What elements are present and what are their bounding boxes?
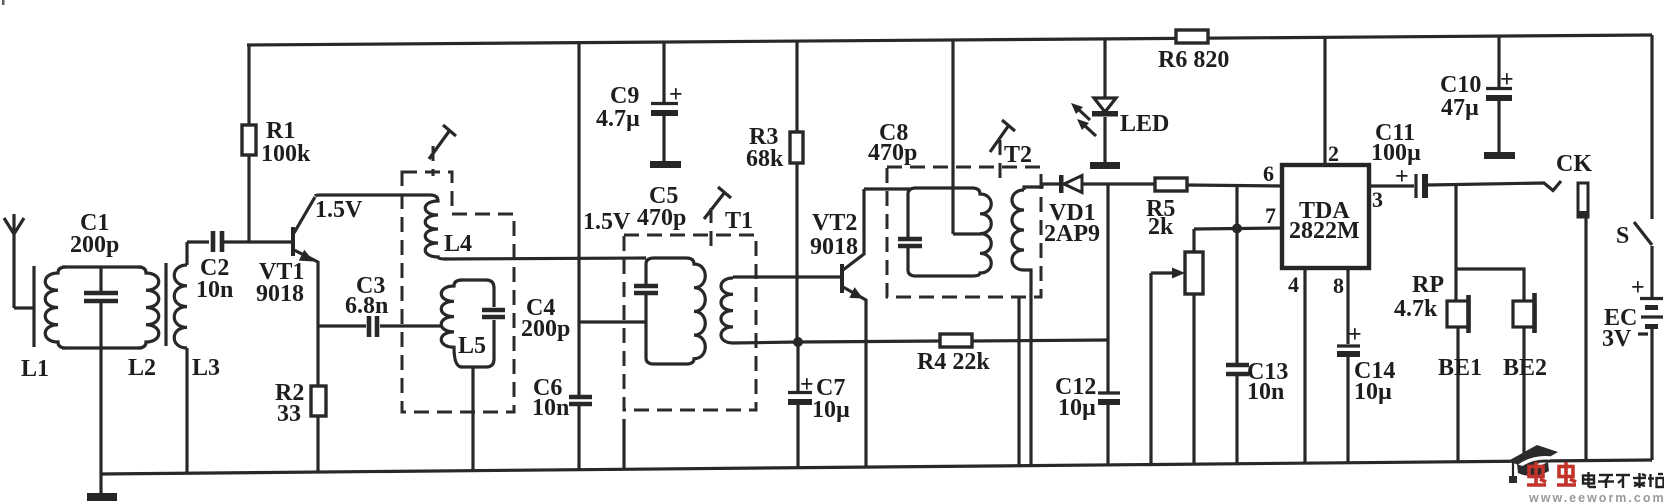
transistor VT2 <box>840 254 866 300</box>
svg-text:BE1: BE1 <box>1438 355 1482 381</box>
svg-text:RP: RP <box>1412 272 1444 298</box>
wire pin2 <box>1323 36 1326 165</box>
svg-text:R4 22k: R4 22k <box>917 349 990 375</box>
inductor T2 secondary <box>1012 183 1042 465</box>
wire 1.5V branch to T1 <box>579 320 646 323</box>
wire pin7 line <box>1194 228 1282 229</box>
node junction dot pin7 <box>1232 224 1242 234</box>
diode VD1 <box>1059 175 1082 193</box>
svg-text:1.5V: 1.5V <box>315 197 363 223</box>
resistor R5 <box>1155 178 1187 191</box>
capacitor C2 <box>213 231 222 252</box>
wire emitter line to R4 and C12 <box>798 341 940 342</box>
svg-text:10µ: 10µ <box>812 397 850 423</box>
svg-text:T2: T2 <box>1004 142 1032 168</box>
resistor R3 <box>790 41 803 342</box>
wire VT2 collector up <box>862 189 865 255</box>
svg-text:2AP9: 2AP9 <box>1044 221 1100 247</box>
svg-text:L1: L1 <box>21 356 49 382</box>
svg-text:LED: LED <box>1120 111 1169 137</box>
inductor T1 primary tank <box>646 258 705 364</box>
potentiometer RP body <box>1151 229 1203 464</box>
wire T1 secondary top to VT2 base <box>733 275 840 278</box>
svg-text:200p: 200p <box>521 316 570 342</box>
svg-text:+: + <box>1395 164 1409 190</box>
capacitor C12 electrolytic <box>1098 393 1120 405</box>
inductor L3 <box>174 242 187 473</box>
svg-text:10µ: 10µ <box>1354 379 1392 405</box>
wire tank center to ground rail <box>99 348 102 472</box>
op-amp U1 TDA2822M <box>1282 165 1369 268</box>
wire C12 vertical <box>1106 184 1109 392</box>
wire bottom ground rail <box>100 460 1652 474</box>
inductor T1 secondary <box>721 278 733 343</box>
inductor L1 <box>45 267 66 348</box>
svg-text:10n: 10n <box>1247 379 1284 405</box>
wire pin3 to C11 <box>1369 184 1414 187</box>
capacitor C9 electrolytic <box>650 42 681 168</box>
svg-text:6.8n: 6.8n <box>345 293 388 319</box>
wire T1 shield ground stub <box>622 419 625 470</box>
wire 1.5V feed vertical <box>577 44 580 395</box>
switch S <box>1634 35 1652 298</box>
svg-text:R6 820: R6 820 <box>1158 47 1229 73</box>
svg-text:10µ: 10µ <box>1058 395 1096 421</box>
inductor T2 primary tank <box>908 188 991 276</box>
shield box L4/L5 dashed <box>402 172 514 412</box>
wire tank top <box>62 265 142 268</box>
svg-text:470p: 470p <box>868 140 917 166</box>
shield box T2 dashed <box>887 167 1041 297</box>
svg-text:+: + <box>669 82 683 108</box>
capacitor C11 electrolytic <box>1416 174 1428 198</box>
svg-text:1.5V: 1.5V <box>583 209 631 235</box>
wire top supply rail <box>247 35 1652 45</box>
antenna <box>4 214 34 347</box>
capacitor C13 <box>1226 365 1249 374</box>
svg-text:47µ: 47µ <box>1441 95 1479 121</box>
svg-text:33: 33 <box>277 401 301 427</box>
inductor L4 <box>425 195 446 259</box>
wire T1 secondary bottom <box>733 342 798 343</box>
scan speck top left <box>2 0 5 5</box>
shield box T1 dashed <box>624 235 756 410</box>
capacitor C6 <box>569 397 592 470</box>
watermark red characters <box>1527 462 1576 485</box>
capacitor C10 electrolytic <box>1484 36 1515 159</box>
inductor L5 tank <box>441 280 494 367</box>
resistor R6 <box>1176 30 1208 43</box>
capacitor C5 <box>634 286 658 293</box>
wire T2 shield ground stub <box>1017 297 1020 465</box>
svg-text:6: 6 <box>1263 161 1274 186</box>
trimmer core arrow of L4/L5 <box>429 125 456 176</box>
capacitor C14 electrolytic <box>1337 346 1360 462</box>
svg-text:2k: 2k <box>1148 214 1174 240</box>
svg-text:L4: L4 <box>444 231 472 257</box>
wire emitter to R2 <box>316 261 319 386</box>
svg-text:+: + <box>1500 67 1514 93</box>
wire VD1 line <box>1042 182 1155 185</box>
svg-text:8: 8 <box>1333 273 1344 298</box>
capacitor C7 electrolytic <box>788 342 812 468</box>
svg-text:VT2: VT2 <box>812 210 857 236</box>
inductor L2 <box>138 267 159 348</box>
trimmer core arrow of T1 <box>704 187 731 250</box>
wire VT2 emitter down <box>864 299 867 468</box>
ground <box>87 472 117 501</box>
wire junction down through C13 <box>1235 228 1238 364</box>
watermark logo cap <box>1508 445 1558 483</box>
svg-text:200p: 200p <box>70 232 119 258</box>
svg-text:S: S <box>1616 223 1629 249</box>
wire L4 bottom to T1 <box>444 258 646 259</box>
capacitor C3 <box>369 316 377 337</box>
battery EC <box>1640 299 1663 461</box>
svg-text:+: + <box>1348 322 1362 348</box>
svg-text:10n: 10n <box>532 395 569 421</box>
svg-text:4.7k: 4.7k <box>1394 296 1438 322</box>
wire C3 branch <box>318 324 366 327</box>
svg-text:9018: 9018 <box>256 281 304 307</box>
svg-text:BE2: BE2 <box>1503 355 1547 381</box>
earphone BE1 <box>1447 295 1469 461</box>
resistor R1 <box>242 44 256 242</box>
wire 1.5V collector line <box>315 195 430 196</box>
svg-text:100µ: 100µ <box>1371 140 1421 166</box>
wire L5 bottom to rail <box>471 367 474 471</box>
svg-text:470p: 470p <box>637 205 686 231</box>
capacitor C8 <box>898 239 922 246</box>
svg-text:7: 7 <box>1265 203 1276 228</box>
svg-text:10n: 10n <box>196 277 233 303</box>
svg-text:3V: 3V <box>1602 326 1632 352</box>
svg-text:T1: T1 <box>725 208 753 234</box>
svg-text:4: 4 <box>1288 272 1299 297</box>
svg-text:3: 3 <box>1372 187 1383 212</box>
node junction dot T1/R3/C7 <box>793 337 803 347</box>
svg-text:CK: CK <box>1556 151 1592 177</box>
svg-text:www.eeworm.com: www.eeworm.com <box>1528 491 1664 504</box>
LED <box>1071 38 1120 169</box>
resistor R2 <box>311 386 326 472</box>
capacitor C1 <box>84 267 118 348</box>
wire tank bottom <box>62 346 142 349</box>
capacitor C4 <box>482 310 505 317</box>
svg-text:+: + <box>1631 275 1645 301</box>
wire BE2 branch <box>1456 269 1524 301</box>
node core bar L2/L3 <box>164 263 167 346</box>
svg-text:+: + <box>800 372 814 398</box>
transistor VT1 <box>291 197 318 262</box>
wire VT1 base <box>187 240 209 243</box>
earphone BE2 <box>1513 293 1535 461</box>
svg-text:68k: 68k <box>746 146 784 172</box>
jack CK <box>1578 183 1588 461</box>
svg-text:2: 2 <box>1328 141 1339 166</box>
wire pin8 to C14 <box>1346 268 1349 344</box>
watermark black characters <box>1583 472 1664 488</box>
wire T2 feed from rail with tap <box>951 40 954 234</box>
wire junction up to pin6 wire <box>1235 186 1238 228</box>
wire C11 to CK jack <box>1428 181 1561 191</box>
svg-text:2822M: 2822M <box>1289 218 1360 244</box>
wire BE branch vertical <box>1454 185 1457 301</box>
svg-text:4.7µ: 4.7µ <box>596 106 640 132</box>
trimmer core arrow of T2 <box>990 120 1015 182</box>
svg-text:9018: 9018 <box>810 234 858 260</box>
svg-text:100k: 100k <box>261 141 311 167</box>
svg-text:L2: L2 <box>128 355 156 381</box>
svg-text:L3: L3 <box>192 355 220 381</box>
svg-text:L5: L5 <box>458 333 486 359</box>
resistor R4 <box>940 334 972 347</box>
wire pin4 <box>1303 268 1306 462</box>
